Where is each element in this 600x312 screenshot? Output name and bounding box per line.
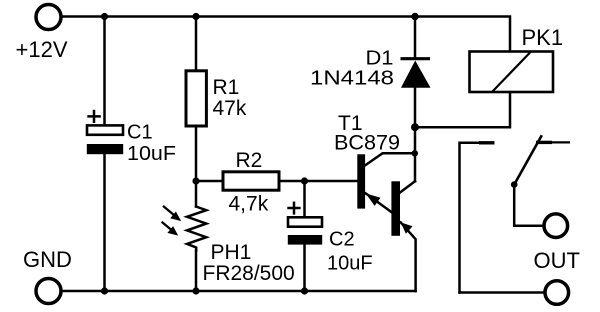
wire C1 bottom [103,154,106,291]
contact arm [514,135,542,184]
svg-text:10uF: 10uF [327,253,373,275]
node R2 left [192,177,199,184]
resistor R1 [186,71,206,126]
pivot node [511,181,518,188]
node C2 bottom [301,287,308,294]
wire D1 bottom [414,88,417,182]
contact fixed right [536,141,552,144]
svg-text:OUT: OUT [534,248,580,273]
svg-text:4,7k: 4,7k [229,193,269,216]
svg-text:D1: D1 [366,48,394,70]
light arrow 2 [162,222,179,236]
svg-text:PK1: PK1 [522,25,564,50]
wire PH1 bottom [195,251,198,292]
diode D1 [401,59,431,88]
light arrow 1 [163,206,181,221]
svg-text:+12V: +12V [16,37,68,62]
wire R2 left [196,180,223,183]
resistor R2 [223,172,279,190]
node relay pin [411,123,419,131]
node C1 bottom [101,287,108,294]
wire OUT left rail [460,143,481,293]
wire C1 top [103,17,106,126]
node R1 top [192,13,199,20]
wire C2 top [303,181,306,217]
svg-text:47k: 47k [213,97,247,120]
wire C2 bottom [303,245,306,291]
svg-text:C2: C2 [329,229,355,251]
node PH1 bottom [192,287,199,294]
svg-text:R2: R2 [236,149,263,172]
svg-text:PH1: PH1 [211,241,252,264]
wire arm to OUT upper [514,185,542,226]
wire R1 bottom [195,126,198,181]
wire bottom rail [63,290,416,293]
wire R2 right to base [279,180,358,183]
wire PH1 top [195,181,198,207]
node C2 top [301,177,308,184]
wire R1 top [195,17,198,71]
node C1 top [101,13,108,20]
wire top rail [63,17,511,52]
svg-text:BC879: BC879 [334,132,400,155]
wire relay bottom pin [415,92,510,127]
node collector [412,150,419,157]
photoresistor PH1 [187,207,206,251]
svg-text:C1: C1 [127,121,153,143]
transistor T1 stage 2 [391,181,415,291]
relay PK1 [470,52,554,93]
svg-text:GND: GND [23,247,72,272]
capacitor C1 [87,110,123,154]
svg-text:FR28/500: FR28/500 [203,262,295,285]
capacitor C2 [287,202,322,245]
terminal OUT lower [545,281,569,305]
svg-text:10uF: 10uF [127,143,176,165]
svg-text:R1: R1 [213,76,240,99]
transistor T1 stage 1 [357,153,415,212]
diode D1 wire top [414,17,417,59]
svg-text:1N4148: 1N4148 [310,68,394,90]
node D1 top [411,13,419,21]
terminal GND [36,279,61,304]
wire OUT lower [460,291,544,294]
contact fixed left [479,141,495,144]
terminal OUT upper [544,214,568,238]
terminal +12V [36,5,61,30]
